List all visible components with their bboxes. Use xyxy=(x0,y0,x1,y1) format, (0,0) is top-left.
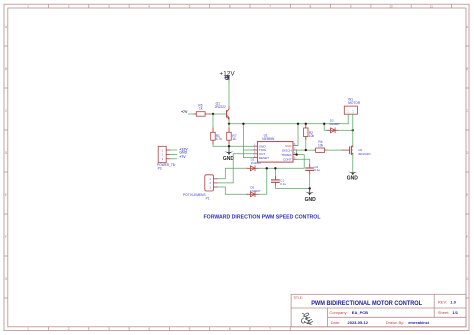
node R1-R7 ground xyxy=(228,145,230,147)
svg-text:9: 9 xyxy=(350,4,352,8)
wire +7V to R6 xyxy=(189,113,197,115)
svg-text:REV:: REV: xyxy=(438,300,447,305)
ground GND right xyxy=(305,188,317,202)
wire source to gnd xyxy=(352,155,354,172)
svg-text:10k: 10k xyxy=(318,143,324,147)
wire P3 pin1 xyxy=(170,149,177,151)
ground GND left xyxy=(223,146,235,162)
svg-text:2: 2 xyxy=(68,4,70,8)
svg-text:P1: P1 xyxy=(206,197,210,201)
svg-text:GND: GND xyxy=(305,197,317,203)
svg-text:4: 4 xyxy=(148,4,150,8)
wire D2 branch xyxy=(324,124,328,131)
wire TRIG stub xyxy=(243,149,253,151)
wire motor pin2 to drain node xyxy=(352,114,354,130)
connector P3 POWER_TB xyxy=(157,146,175,170)
diode D2 xyxy=(327,119,340,133)
wire C1 top xyxy=(274,168,276,178)
svg-text:3: 3 xyxy=(108,327,110,331)
svg-text:1: 1 xyxy=(27,4,29,8)
svg-text:E: E xyxy=(466,193,468,197)
node THRES xyxy=(295,153,297,155)
wire P1 pin1 to D1 xyxy=(217,168,248,179)
svg-text:P3: P3 xyxy=(158,167,162,171)
svg-text:1: 1 xyxy=(27,327,29,331)
wire R6 to Q1 base xyxy=(209,113,227,115)
transistor Q1 xyxy=(215,102,230,120)
svg-text:IRFZ44N: IRFZ44N xyxy=(358,152,370,156)
svg-text:NE555N: NE555N xyxy=(262,137,275,141)
svg-text:EA_PCB: EA_PCB xyxy=(352,310,368,315)
wire C1 bottom to right gnd xyxy=(275,185,309,189)
svg-text:GND: GND xyxy=(347,175,359,181)
svg-text:GND: GND xyxy=(223,156,235,162)
wire drain xyxy=(352,130,354,146)
wire P3 pin2 xyxy=(170,153,177,155)
svg-text:1k: 1k xyxy=(232,137,236,141)
node right gnd xyxy=(309,187,311,189)
svg-text:+7V: +7V xyxy=(181,110,188,114)
svg-text:8: 8 xyxy=(310,4,312,8)
logo sketch xyxy=(301,313,312,324)
transistor U2 IRFZ44N xyxy=(342,146,370,156)
svg-text:7: 7 xyxy=(269,327,271,331)
wire R4 to gate xyxy=(327,149,345,151)
svg-text:E: E xyxy=(5,193,7,197)
node C1 top xyxy=(274,167,276,169)
wire R2 column xyxy=(305,124,307,150)
wire P1 pin3 to D3 xyxy=(217,187,248,194)
ground GND mosfet xyxy=(347,172,359,182)
wire R1 top xyxy=(212,114,214,146)
resistor R4 xyxy=(314,140,327,152)
wire D2 to drain node xyxy=(339,129,353,131)
resistor R2 xyxy=(304,126,315,140)
node rail-R2 xyxy=(305,123,307,125)
svg-text:CONT: CONT xyxy=(283,158,292,162)
svg-text:2N2222: 2N2222 xyxy=(215,105,226,109)
svg-text:0.1u: 0.1u xyxy=(314,168,320,172)
svg-text:7: 7 xyxy=(269,4,271,8)
svg-text:1N4007: 1N4007 xyxy=(329,122,340,126)
svg-text:DISCH: DISCH xyxy=(282,148,291,152)
svg-text:2023-05-12: 2023-05-12 xyxy=(348,320,369,325)
svg-text:10: 10 xyxy=(389,4,393,8)
svg-text:11: 11 xyxy=(430,4,434,8)
svg-text:Sheet:: Sheet: xyxy=(438,310,450,315)
wire rail drop to RESET xyxy=(243,124,253,158)
motor W1 xyxy=(344,97,360,114)
svg-text:3: 3 xyxy=(108,4,110,8)
svg-text:10k: 10k xyxy=(309,134,315,138)
svg-text:1k: 1k xyxy=(199,107,203,111)
svg-text:5: 5 xyxy=(189,4,191,8)
SCHEMATIC xyxy=(157,70,370,220)
svg-text:B: B xyxy=(466,67,468,71)
resistor R7 xyxy=(227,128,237,144)
node rail-reset xyxy=(242,123,244,125)
wire D1 to THRES xyxy=(259,155,305,169)
node DISCH-R2 xyxy=(305,149,307,151)
IC U1 NE555N xyxy=(254,134,297,163)
node motor-drain xyxy=(352,129,354,131)
wire P1 pin2 to OUT xyxy=(217,154,254,183)
svg-text:MOTOR: MOTOR xyxy=(348,101,361,105)
wire CONT to C2 xyxy=(293,159,309,166)
resistor R1 xyxy=(211,128,222,144)
svg-text:4: 4 xyxy=(148,327,150,331)
svg-text:1/1: 1/1 xyxy=(452,310,458,315)
wire motor pin1 to rail xyxy=(347,114,349,124)
wire rail xyxy=(229,123,348,125)
wire Q1 emitter to rail xyxy=(228,120,230,124)
TITLE BLOCK xyxy=(291,294,466,327)
wire DISCH-THRES tie xyxy=(296,150,298,155)
svg-text:+7V: +7V xyxy=(179,155,186,159)
diode D3 xyxy=(247,185,261,196)
power flag +12V xyxy=(219,70,235,80)
svg-text:F: F xyxy=(466,235,468,239)
wire R7 xyxy=(228,124,230,146)
svg-text:Company:: Company: xyxy=(329,310,347,315)
wire +12V to Q1 collector xyxy=(228,81,230,108)
svg-text:0.1u: 0.1u xyxy=(280,182,286,186)
svg-text:1.0: 1.0 xyxy=(450,300,456,305)
svg-text:TITLE:: TITLE: xyxy=(293,296,303,300)
svg-text:F: F xyxy=(5,235,7,239)
diode D1 xyxy=(247,158,261,171)
node D3 joins xyxy=(266,167,268,169)
svg-text:VCC: VCC xyxy=(285,144,292,148)
svg-text:POT KLEMENS: POT KLEMENS xyxy=(183,193,206,197)
connector P1 POT KLEMENS xyxy=(183,175,217,201)
wire C2 to gnd node xyxy=(309,173,311,189)
svg-text:B: B xyxy=(5,67,7,71)
svg-text:Date:: Date: xyxy=(331,320,341,325)
wire P3 pin3 xyxy=(170,158,177,160)
svg-text:FORWARD DIRECTION PWM SPEED CO: FORWARD DIRECTION PWM SPEED CONTROL xyxy=(204,214,321,220)
capacitor C2 xyxy=(306,165,321,174)
wire ground row to U1 pin1 xyxy=(213,145,254,147)
node rail-vcc xyxy=(297,123,299,125)
wire D3 up to D1 line xyxy=(259,168,267,194)
svg-text:THRES: THRES xyxy=(281,153,291,157)
svg-text:emreakinci: emreakinci xyxy=(408,320,429,325)
capacitor C1 xyxy=(272,177,287,186)
node base junction xyxy=(212,113,214,115)
svg-text:5: 5 xyxy=(189,327,191,331)
svg-text:2: 2 xyxy=(68,327,70,331)
svg-text:Drawn By:: Drawn By: xyxy=(386,320,404,325)
node rail-emitter xyxy=(228,123,230,125)
wire DISCH row xyxy=(293,149,314,151)
wire VCC drop xyxy=(293,124,298,146)
svg-text:RESET: RESET xyxy=(259,156,269,160)
svg-text:PWM BIDIRECTIONAL MOTOR CONTRO: PWM BIDIRECTIONAL MOTOR CONTROL xyxy=(311,300,422,307)
node rail-D2 xyxy=(323,123,325,125)
svg-text:4.7k: 4.7k xyxy=(216,137,222,141)
svg-text:6: 6 xyxy=(229,327,231,331)
resistor R6 xyxy=(194,103,210,116)
svg-text:6: 6 xyxy=(229,4,231,8)
